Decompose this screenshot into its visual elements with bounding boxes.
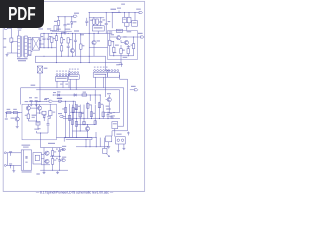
node dot [44,33,69,34]
wire [39,43,44,45]
wire [47,126,49,133]
PDF badge label [8,4,36,24]
wire [117,144,119,150]
capacitor C1 electrolytic [41,33,46,47]
wire [39,39,41,41]
wire [41,164,50,166]
ground [64,32,67,35]
svg-text:— 8.17spindl/PioneerLD78 schem: — 8.17spindl/PioneerLD78 schematic rev1.… [36,190,114,194]
capacitor C3 [67,43,70,56]
node dot [40,101,41,102]
label CN1 [56,71,70,72]
resistor R35 [75,121,77,126]
label +5V [106,108,111,109]
label caps [61,149,64,160]
wire column [73,101,74,119]
wire [120,45,122,60]
capacitor C101 [64,24,70,26]
wire [7,28,11,38]
resistor R34 [75,105,80,110]
sheet background [0,0,149,198]
wire [7,52,11,54]
wire [52,148,54,171]
resistor R28 [42,111,46,115]
terminal J1 AC input [4,25,8,29]
wire [31,50,32,52]
wire [16,121,18,125]
ground [117,150,120,153]
label bus [31,85,36,86]
wire [61,33,63,56]
connector CN3 pins [94,70,108,72]
label Q5 [97,40,100,41]
ground [16,125,19,128]
resistor R134 [127,49,129,54]
wire [43,115,45,121]
wire [36,118,38,121]
label CN2 [69,69,79,70]
resistor R40 [94,121,96,125]
wire [27,110,29,114]
label cluster [50,30,65,33]
resistor R6 [80,44,85,49]
resistor R31 [62,108,67,113]
resistor R23 [25,114,30,119]
resistor R37 [83,121,85,124]
wire [111,131,113,136]
wire [121,40,124,43]
wire [108,102,110,113]
wire [127,132,130,136]
capacitor C53 electrolytic [56,148,61,157]
wire drops CN3 [95,77,103,88]
wire [109,33,111,55]
resistor R32 [68,115,70,120]
wire [48,116,50,121]
wire bottom bus [56,132,96,137]
resistor R11 [82,92,87,97]
wire [10,42,12,53]
wire [55,33,57,35]
wire double bus [64,138,92,142]
svg-text:PDF: PDF [8,4,36,24]
wire [108,142,110,146]
connector CN1 body [55,77,67,82]
resistor R39 [90,112,95,117]
node dot [58,16,72,17]
transistor Q11 [117,36,121,40]
wire [49,104,51,111]
wire [63,115,65,117]
capacitor C31 [107,112,113,119]
wire bus Bb [36,89,119,91]
transformer T1 core [22,36,24,57]
wire [31,39,32,41]
wire [8,164,22,166]
wire [43,153,46,161]
capacitor C11 [30,100,33,103]
PDF badge [0,0,44,28]
transformer T1 secondary winding [25,36,28,57]
wire [110,36,116,38]
resistor R135 [131,44,135,49]
connector CN3 body [93,73,107,78]
wire [94,90,96,104]
label U11 top [121,4,125,5]
IC U12 small box [132,21,138,27]
wire [27,104,29,106]
wire [96,138,104,149]
wire [39,88,41,102]
wire horizontal [76,124,95,125]
resistor R36 [79,112,84,117]
resistor R122 [127,17,131,22]
wire column [90,105,92,119]
label D5V [32,115,37,118]
bottom rule [3,190,144,192]
wire [41,47,57,49]
capacitor C54 electrolytic [56,156,61,170]
terminal REF [130,86,138,91]
wire [80,33,82,44]
wire [128,13,130,18]
label Q23 Q24 [25,101,40,102]
label bottom-left mark [36,173,39,174]
capacitor C14 on top [116,29,122,32]
label under Q21 [106,106,110,107]
terminal OUT1 [138,33,144,38]
capacitor C12 [35,100,38,103]
wire [64,26,66,31]
transistor Q21 [107,98,111,102]
wire [100,95,101,102]
wire [40,133,41,148]
wire [66,94,100,96]
resistor R133 [120,49,125,54]
wire [125,23,130,26]
wire [36,104,38,118]
wire [106,99,107,101]
wire [53,100,76,102]
resistor R53 [51,159,56,165]
wire [29,101,47,103]
wire column [98,102,100,119]
wire [39,104,41,106]
wire [39,47,41,49]
wire [41,153,44,155]
wire [112,12,139,14]
resistor R5 [67,38,72,43]
bridge rectifier D1 [32,38,39,51]
wire [18,31,20,36]
node dot [44,56,90,57]
resistor R3 [60,38,65,43]
node dot [53,95,54,96]
wire [89,46,107,48]
wire column [87,102,89,119]
label end [44,99,47,100]
capacitor C21 [47,121,50,127]
relay K2 box [116,137,126,144]
capacitor C2 electrolytic [47,33,52,47]
label +V net [111,9,117,10]
relay K1 box [112,122,118,129]
label row above rail [38,28,70,29]
wire stub [106,153,109,156]
ground [12,170,15,173]
node dot [56,62,90,63]
terminal -5V out [60,157,67,162]
wire [30,107,37,109]
wire [123,144,125,147]
wire nested bracket a [119,90,121,113]
wire [64,17,66,25]
wire [53,94,67,96]
wire output [121,36,141,38]
resistor R131 [109,40,114,45]
resistor R27 [48,111,55,116]
module PS1 body [21,150,31,170]
component box X1 [106,136,112,142]
wire [71,105,73,138]
terminal FG2 [57,98,62,102]
capacitor C113 [99,18,105,26]
wire bottom bus [89,32,113,34]
wire [27,119,29,121]
wire [11,41,17,43]
plug P1 [4,152,6,166]
wire [88,13,90,34]
label PS1 part [22,171,32,172]
resistor R52 [51,151,56,156]
label mid [111,115,115,118]
label top edge [109,31,132,32]
wire [91,138,93,140]
diode D11 [57,91,60,96]
wire [34,56,36,62]
wire bus B1 [35,55,105,57]
transistor Q5 [92,41,96,45]
wire [105,112,120,113]
capacitor C51 [9,151,12,155]
wire [89,12,121,14]
wire [39,110,41,114]
resistor R112 [96,19,98,24]
resistor R121 [123,17,127,22]
wire [8,152,22,154]
wire [72,53,73,57]
resistor R2 [55,36,57,41]
wire [113,41,115,56]
wire [71,17,73,22]
wire [55,48,57,63]
wire [34,55,36,57]
resistor R132 [113,47,115,52]
transformer T1 shield winding [28,37,31,55]
wire main rail [41,33,89,40]
wire [20,88,22,105]
label C11 C12 [29,97,38,98]
label bias [111,34,131,47]
wire [111,13,113,29]
wire [76,146,108,147]
subcircuit box PSU [22,104,56,140]
label below bus [119,64,123,65]
node dot [44,47,53,48]
wire [52,41,57,48]
wire [6,153,7,166]
wire [87,125,89,138]
node dot [89,12,113,13]
wire [93,45,95,57]
wire [37,125,39,129]
label net tick [117,8,121,13]
connector CN2 pins [69,72,79,74]
wire column [94,105,96,125]
resistor R41 [98,103,103,108]
wire tie G5 [110,55,134,57]
wire tie [28,121,37,122]
transistor Q23 [26,106,30,110]
label AC adapter [22,145,31,148]
resistor R42 [102,112,104,117]
label Q22 [11,118,15,119]
node dot [86,137,97,140]
wire [37,131,49,133]
wire [13,165,15,169]
label inner [34,129,39,130]
wire [106,56,110,70]
subcircuit box [108,31,138,60]
connector CN4 body [107,73,119,78]
node dot [124,12,136,13]
label G5 lower [113,52,128,58]
capacitor C52 [9,164,12,168]
wire [133,37,134,56]
rectifier module D2 [37,66,47,73]
module PS2 body [33,153,41,164]
wire [43,148,45,171]
ground [35,103,38,106]
wire column [65,101,66,138]
wire bus B2 [35,63,121,67]
wire [57,76,69,77]
wire column [75,105,77,138]
wire column [69,104,71,137]
wire column [79,105,81,131]
label rail [74,30,84,35]
wire [37,112,43,114]
ground [107,146,110,149]
wire [94,24,97,26]
transistor Q52 [45,159,49,163]
label left [3,47,6,48]
node dot [90,95,96,96]
resistor R21 [7,109,11,114]
label T1 [17,27,22,30]
wire [94,33,95,41]
node dot [52,156,60,157]
wire [74,101,76,104]
module PS2 internal [35,155,39,160]
label transformer part no [17,58,28,61]
module PS1 internal [24,150,28,170]
wire [11,52,17,54]
node dot [76,118,109,119]
resistor R101 [54,20,60,25]
schematic border frame [3,1,144,191]
transformer T1 primary winding [18,36,21,57]
wire [88,33,90,62]
wire drops CN2 [70,79,76,90]
node dot [89,33,99,34]
terminal SPDL [46,100,52,102]
label 5V reg [48,143,55,144]
wire nested bracket c [112,79,128,131]
wire [16,113,18,117]
transistor Q24 [38,106,42,110]
node dot [65,137,88,138]
wire [41,147,62,149]
IC U11 regulator [92,26,104,31]
ground [6,54,9,57]
label right [109,116,112,117]
label bottom [38,128,41,129]
label K2 [116,134,121,135]
transistor Q4 [70,49,74,53]
ground [43,171,46,174]
resistor R111 [90,19,95,24]
wire [71,24,73,28]
wire [126,26,128,30]
caption [36,190,114,194]
wire [74,33,76,40]
wire long GY [63,118,120,120]
diode D101 [71,21,77,24]
node dot [86,146,97,147]
wire [57,16,73,18]
connector CN2 body [68,75,79,80]
resistor R22 [13,109,17,114]
wire [105,74,107,97]
terminal B+ OUT [136,9,142,14]
wire [89,17,104,19]
label above wire [53,92,56,93]
connector CN4 pins [108,70,119,72]
wire [5,112,22,114]
wire [100,23,102,25]
wire drops CN1 [57,81,69,88]
wire [50,155,61,157]
connector CN1 pins [56,74,70,76]
diode D12 [74,94,76,97]
wire [58,17,60,21]
wire [86,140,90,147]
transistor Q22 [15,117,19,121]
capacitor C111 [85,18,88,26]
wire column [83,105,85,125]
resistor R4 [60,46,62,51]
component box X2 [103,148,107,153]
wire [80,49,82,62]
node dot [108,156,109,157]
diode D21 [43,116,50,118]
node dot [113,55,128,56]
label above box [45,98,49,99]
wire [127,45,129,56]
resistor R33 [72,108,77,113]
node dot [44,170,61,171]
